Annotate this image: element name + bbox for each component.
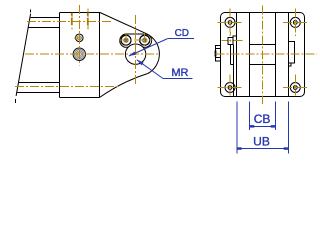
svg-text:MR: MR: [171, 67, 188, 79]
svg-text:UB: UB: [253, 135, 270, 149]
svg-text:CB: CB: [254, 112, 271, 126]
svg-text:CD: CD: [175, 28, 189, 39]
